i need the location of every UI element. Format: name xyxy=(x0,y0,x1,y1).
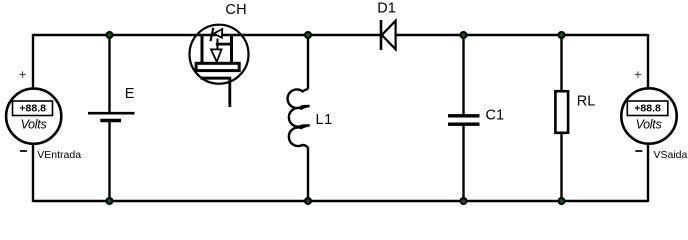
channel plate rectangle xyxy=(196,63,239,70)
wire top rail left (from left corner to D1 cathode bar) xyxy=(33,34,381,36)
wire inductor branch xyxy=(307,35,309,201)
wire battery branch xyxy=(108,35,110,201)
svg-text:C1: C1 xyxy=(486,108,505,124)
arrow triangle pointing down xyxy=(211,49,222,61)
svg-text:Volts: Volts xyxy=(21,118,47,132)
wire bottom rail xyxy=(33,200,648,202)
left post xyxy=(201,36,204,62)
node battery top xyxy=(106,31,114,39)
svg-text:+88.8: +88.8 xyxy=(19,103,46,115)
wire resistor branch xyxy=(560,35,562,201)
body diode slanted bar xyxy=(211,28,214,41)
body diode triangle xyxy=(214,29,223,38)
wire top rail right (from D1 anode to right corner) xyxy=(395,34,648,36)
node capacitor top xyxy=(460,31,468,39)
svg-text:E: E xyxy=(125,86,135,102)
transistor CH (MOSFET switch) xyxy=(190,2,249,107)
gate bar xyxy=(201,77,232,80)
svg-text:+88.8: +88.8 xyxy=(634,103,661,115)
diode D1 xyxy=(377,1,396,51)
hook bar xyxy=(216,43,233,46)
voltmeter VEntrada xyxy=(6,71,81,161)
svg-text:CH: CH xyxy=(225,2,247,18)
node battery bottom xyxy=(106,197,114,205)
node inductor bottom xyxy=(304,197,312,205)
svg-text:RL: RL xyxy=(577,94,596,110)
wire capacitor branch xyxy=(462,35,464,201)
right post xyxy=(230,36,233,62)
node inductor top xyxy=(304,31,312,39)
battery E xyxy=(88,86,135,121)
node capacitor bottom xyxy=(460,197,468,205)
gate terminal line xyxy=(228,78,231,107)
svg-text:VEntrada: VEntrada xyxy=(37,149,81,161)
wire right branch (voltmeter VSaida) xyxy=(647,34,649,202)
resistor RL xyxy=(555,91,595,133)
svg-text:D1: D1 xyxy=(377,1,396,17)
voltmeter VSaida xyxy=(621,71,687,160)
svg-text:VSaida: VSaida xyxy=(654,149,688,161)
node resistor bottom xyxy=(558,197,566,205)
svg-text:Volts: Volts xyxy=(636,118,662,132)
node resistor top xyxy=(558,31,566,39)
svg-text:L1: L1 xyxy=(316,112,333,128)
wire left branch (voltmeter VEntrada) xyxy=(32,34,34,202)
stub above arrow xyxy=(217,39,219,50)
capacitor C1 xyxy=(448,108,504,125)
inductor L1 xyxy=(288,89,333,148)
